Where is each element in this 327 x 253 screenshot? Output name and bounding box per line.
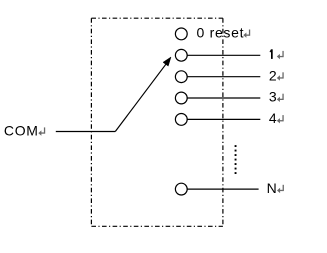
pin label 2 with return mark xyxy=(269,67,284,83)
pin label N with return mark xyxy=(267,180,284,196)
contact 3 terminal xyxy=(175,92,187,104)
svg-text:0 reset: 0 reset xyxy=(197,25,245,41)
contact 0 (reset) terminal xyxy=(175,28,187,40)
pin label 1 with return mark xyxy=(270,49,284,59)
contact 2 terminal xyxy=(175,71,187,83)
pin label 3 with return mark xyxy=(269,89,284,105)
wire: contact 3 to pin 3 xyxy=(187,97,260,99)
contact 1 terminal xyxy=(175,49,187,61)
continuation dots (vertical ellipsis) xyxy=(235,145,237,174)
wire: contact N to pin N xyxy=(187,188,258,190)
switch body outline (dash-dot box) xyxy=(91,18,223,226)
COM wire xyxy=(56,131,116,133)
svg-text:N: N xyxy=(267,180,277,196)
contact 4 terminal xyxy=(175,114,187,126)
wire: contact 1 to pin 1 xyxy=(187,54,260,56)
svg-text:3: 3 xyxy=(269,89,277,105)
pin label 0 reset with return mark xyxy=(197,25,251,41)
wire: contact 4 to pin 4 xyxy=(187,118,260,120)
label COM with return mark xyxy=(4,122,45,138)
pin label 4 with return mark xyxy=(269,110,284,126)
svg-text:2: 2 xyxy=(269,67,277,83)
svg-text:4: 4 xyxy=(269,110,277,126)
contact N terminal xyxy=(175,183,187,195)
svg-text:COM: COM xyxy=(4,122,39,138)
wiper arrow (COM to contact 1) xyxy=(115,57,171,132)
wire: contact 2 to pin 2 xyxy=(187,76,260,78)
